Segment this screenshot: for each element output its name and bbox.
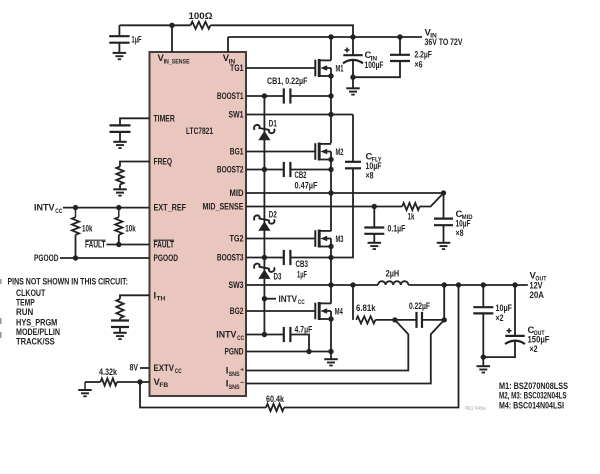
transistor M3 bbox=[314, 230, 316, 247]
svg-text:60.4k: 60.4k bbox=[266, 394, 285, 405]
node CB2 right junction bbox=[328, 167, 333, 172]
diode D3 bbox=[263, 260, 265, 271]
wire D3 to INTVCC stub bbox=[263, 279, 265, 335]
resistor R 6.81k bbox=[356, 316, 375, 323]
svg-text:BOOST2: BOOST2 bbox=[217, 165, 244, 176]
capacitor C 1uF bbox=[109, 35, 129, 37]
svg-text:×8: ×8 bbox=[366, 171, 374, 182]
wire CMID to ground bbox=[443, 225, 445, 243]
resistor R freq bbox=[116, 167, 123, 185]
ground below freq resistor bbox=[113, 188, 127, 190]
wire CIN bottom to ground bbox=[352, 77, 354, 88]
wire CB2 to SW2 vertical bbox=[290, 169, 331, 171]
resistor R 100ohm bbox=[191, 22, 211, 29]
diode D1 bbox=[263, 121, 265, 132]
svg-text:BG1: BG1 bbox=[230, 147, 244, 158]
wire TG2 to M3 gate bbox=[246, 238, 315, 240]
svg-text:EXT_REF: EXT_REF bbox=[154, 203, 187, 214]
wire BOOST1 row bbox=[246, 95, 284, 97]
svg-text:PINS NOT SHOWN IN THIS CIRCUIT: PINS NOT SHOWN IN THIS CIRCUIT: bbox=[8, 276, 128, 287]
wire PGND row bbox=[246, 351, 331, 353]
wire inductor to VOUT rail bbox=[408, 284, 527, 286]
svg-text:0.22µF: 0.22µF bbox=[409, 301, 430, 312]
svg-text:INTV: INTV bbox=[216, 330, 237, 341]
wire VIN rail to 2.2uF bbox=[399, 37, 401, 55]
svg-text:M1: M1 bbox=[336, 63, 344, 74]
capacitor C 4.7uF bbox=[283, 327, 285, 342]
wire MID_SENSE to 0.1uF bbox=[373, 207, 375, 228]
svg-text:M4: BSC014N04LSI: M4: BSC014N04LSI bbox=[499, 400, 564, 411]
capacitor COUT 150uF electrolytic bbox=[505, 335, 524, 337]
wire M2 source to M3 drain bbox=[330, 160, 332, 232]
wire SW3 row bbox=[246, 284, 378, 286]
ground below 1uF bbox=[113, 52, 127, 54]
node SW3 junction M3 M4 bbox=[328, 282, 333, 287]
svg-text:PGND: PGND bbox=[225, 347, 244, 358]
svg-text:100µF: 100µF bbox=[365, 60, 384, 71]
svg-text:0.1µF: 0.1µF bbox=[388, 224, 406, 235]
svg-text:6.81k: 6.81k bbox=[356, 303, 376, 314]
svg-text:TH: TH bbox=[157, 295, 166, 302]
svg-text:M2: M2 bbox=[336, 147, 344, 158]
wire BOOST1 to D1 bbox=[263, 96, 265, 122]
ground below ith cap bbox=[113, 332, 127, 334]
ground below output caps bbox=[477, 365, 491, 367]
svg-text:+: + bbox=[240, 367, 244, 374]
wire M4 source to PGND bbox=[330, 319, 332, 352]
wire COUT bottom bbox=[483, 340, 515, 357]
node BOOST3 junction bbox=[262, 255, 267, 260]
resistor R 60.4k bbox=[266, 404, 284, 411]
node VIN_SENSE junction on top wire bbox=[169, 23, 174, 28]
wire 6.81k to 0.22uF bbox=[375, 319, 416, 321]
svg-text:MID: MID bbox=[230, 188, 244, 199]
svg-text:1µF: 1µF bbox=[297, 269, 307, 280]
node PGND junction M4 source bbox=[328, 349, 333, 354]
svg-text:CB2: CB2 bbox=[295, 170, 307, 181]
svg-text:D1: D1 bbox=[269, 118, 277, 129]
wire 1k to MID diagonal bbox=[420, 193, 444, 207]
node VOUT COUT junction bbox=[512, 282, 517, 287]
IC U1 LTC7821 body bbox=[150, 52, 247, 396]
wire EXT_REF row bbox=[63, 207, 150, 209]
svg-text:PGOOD: PGOOD bbox=[34, 253, 59, 264]
node CIN bottom junction bbox=[350, 75, 355, 80]
resistor R 10k right bbox=[115, 217, 122, 235]
wire 0.22uF right to node bbox=[422, 319, 444, 321]
svg-text:10k: 10k bbox=[82, 223, 93, 234]
svg-text:D2: D2 bbox=[269, 209, 277, 220]
wire TG1 to M1 gate bbox=[246, 67, 315, 69]
wire INTVCC stub tick bbox=[264, 298, 276, 300]
wire VOUT feedback down bbox=[284, 285, 459, 408]
svg-text:100Ω: 100Ω bbox=[189, 11, 213, 22]
node sense junction right bbox=[442, 317, 447, 322]
node 2.2uF junction bbox=[397, 34, 402, 39]
resistor R 4.32k bbox=[101, 378, 118, 385]
svg-text:×6: ×6 bbox=[415, 59, 423, 70]
wire VFB row bbox=[117, 381, 150, 383]
wire BG2 to M4 gate bbox=[246, 310, 315, 312]
wire M1 source to M2 drain SW1 vertical bbox=[330, 76, 332, 143]
svg-text:MID_SENSE: MID_SENSE bbox=[203, 202, 244, 213]
edge artifact marks bbox=[0, 279, 2, 284]
node PGND junction 4.7uF bbox=[306, 349, 311, 354]
svg-text:CC: CC bbox=[298, 299, 305, 306]
svg-text:FAULT: FAULT bbox=[85, 240, 106, 251]
node FAULT junction bbox=[116, 242, 121, 247]
wire sense right to VOUT rail bbox=[443, 285, 445, 320]
wire CB3 to SW3 vertical bbox=[290, 257, 331, 259]
capacitor C 0.22uF sense bbox=[415, 312, 417, 328]
node CIN junction bbox=[350, 34, 355, 39]
node output ground junction bbox=[481, 354, 486, 359]
capacitor C ith bbox=[111, 319, 129, 321]
wire 10k right to FAULT bbox=[118, 235, 120, 245]
node SW3 junction CFLY sense bbox=[350, 282, 355, 287]
svg-text:36V TO 72V: 36V TO 72V bbox=[425, 37, 463, 48]
wire VIN_SENSE stub bbox=[171, 25, 173, 52]
wire ITH row bbox=[120, 295, 150, 299]
svg-text:TRACK/SS: TRACK/SS bbox=[16, 337, 55, 348]
wire VOUT to COUT bbox=[514, 285, 516, 336]
wire freq resistor to ground bbox=[119, 185, 121, 190]
svg-text:LTC7821: LTC7821 bbox=[186, 126, 213, 137]
svg-text:2µH: 2µH bbox=[386, 269, 400, 280]
wire 2.2uF to CIN bottom bbox=[353, 61, 400, 77]
svg-text:×2: ×2 bbox=[496, 313, 504, 324]
ground below 0.1uF bbox=[368, 242, 382, 244]
node VOUT rail junction inductor sense bbox=[442, 282, 447, 287]
resistor R 10k left bbox=[72, 217, 79, 235]
svg-text:TIMER: TIMER bbox=[154, 113, 175, 124]
wire 10k left to PGOOD bbox=[75, 235, 77, 258]
node CB1 right junction bbox=[328, 93, 333, 98]
svg-text:CC: CC bbox=[175, 368, 182, 375]
capacitor C timer bbox=[110, 124, 131, 126]
svg-text:CC: CC bbox=[55, 208, 62, 215]
svg-text:−: − bbox=[240, 380, 244, 387]
ground below CMID bbox=[437, 242, 451, 244]
svg-text:1k: 1k bbox=[408, 211, 415, 222]
svg-text:20A: 20A bbox=[530, 290, 545, 301]
node sense junction left bbox=[392, 317, 397, 322]
wire CFLY bottom to SW3 net bbox=[331, 168, 353, 257]
svg-text:SW3: SW3 bbox=[229, 280, 244, 291]
wire SW1 to CFLY top bbox=[352, 115, 354, 162]
wire CB1 to SW1 vertical bbox=[290, 95, 331, 97]
wire BOOST3 to D3 bbox=[263, 258, 265, 261]
svg-text:10k: 10k bbox=[125, 223, 136, 234]
node INTVCC stub junction bbox=[262, 296, 267, 301]
svg-text:TG1: TG1 bbox=[230, 63, 244, 74]
wire SW1 row bbox=[246, 114, 353, 116]
svg-text:PGOOD: PGOOD bbox=[154, 253, 179, 264]
svg-text:IN_SENSE: IN_SENSE bbox=[164, 58, 190, 65]
svg-text:BOOST1: BOOST1 bbox=[217, 91, 244, 102]
svg-text:D3: D3 bbox=[274, 271, 282, 282]
svg-text:SW1: SW1 bbox=[229, 110, 245, 121]
node EXT_REF junction right 10k bbox=[116, 205, 121, 210]
wire FAULT row bbox=[107, 244, 150, 246]
wire 4.7uF to PGND bbox=[290, 335, 309, 352]
wire 1uF to 100ohm resistor bbox=[119, 24, 190, 26]
wire PGND to ground bbox=[330, 352, 332, 360]
transistor M4 bbox=[314, 303, 316, 320]
svg-text:M3: M3 bbox=[336, 234, 344, 245]
svg-text:SNS: SNS bbox=[229, 371, 240, 378]
svg-text:INTV: INTV bbox=[34, 203, 55, 214]
wire ISNS+ tap bbox=[246, 320, 408, 371]
node PGOOD junction bbox=[73, 255, 78, 260]
ground below CIN bbox=[346, 87, 360, 89]
svg-text:BG2: BG2 bbox=[230, 306, 244, 317]
wire BOOST3 row bbox=[246, 257, 284, 259]
capacitor CIN 100uF electrolytic bbox=[343, 54, 362, 56]
wire VOUT to 10uF bbox=[482, 285, 484, 307]
svg-text:FB: FB bbox=[159, 382, 168, 389]
diode D2 bbox=[263, 212, 265, 223]
wire timer cap to ground bbox=[119, 132, 121, 142]
capacitor C 10uF x2 bbox=[473, 306, 493, 308]
wire D2 to BOOST3 bbox=[263, 230, 265, 257]
node MID right junction bbox=[441, 190, 446, 195]
capacitor CB1 0.22uF bbox=[283, 88, 285, 103]
svg-text:0.47µF: 0.47µF bbox=[295, 181, 318, 192]
wire M1 drain to VIN rail bbox=[330, 37, 332, 60]
svg-text:BOOST3: BOOST3 bbox=[217, 253, 244, 264]
wire BG1 to M2 gate bbox=[246, 151, 315, 153]
wire 0.1uF to ground bbox=[373, 234, 375, 243]
wire CIN to ground node bbox=[352, 60, 354, 78]
node M1 drain junction bbox=[328, 34, 333, 39]
node INTVCC junction bbox=[262, 332, 267, 337]
svg-text:×8: ×8 bbox=[456, 228, 464, 239]
wire FREQ row bbox=[120, 162, 150, 167]
svg-text:8V: 8V bbox=[130, 362, 139, 373]
svg-text:×2: ×2 bbox=[530, 344, 538, 355]
node EXT_REF junction left 10k bbox=[73, 205, 78, 210]
wire M3 source to M4 drain bbox=[330, 247, 332, 304]
svg-text:FREQ: FREQ bbox=[154, 157, 173, 168]
wire 4.32k to ground bbox=[85, 381, 101, 383]
svg-text:SNS: SNS bbox=[229, 384, 240, 391]
wire VIN rail to CIN bbox=[352, 37, 354, 55]
capacitor C 1uF lead bbox=[118, 25, 120, 36]
wire BOOST2 row bbox=[246, 169, 284, 171]
wire 60.4k to VFB bbox=[140, 382, 266, 408]
svg-text:1µF: 1µF bbox=[132, 34, 142, 45]
node SW1 junction bbox=[328, 112, 333, 117]
capacitor CMID 10uF x8 bbox=[434, 218, 453, 220]
wire MID to CMID bbox=[443, 193, 445, 219]
wire INTVCC row bbox=[246, 334, 284, 336]
wire TIMER row bbox=[120, 118, 150, 125]
capacitor CB3 1uF bbox=[283, 250, 285, 265]
node VOUT feedback junction bbox=[456, 282, 461, 287]
capacitor 2.2uF x6 bbox=[390, 54, 410, 56]
wire 10uF to ground node bbox=[482, 313, 484, 357]
wire BOOST2 to D2 bbox=[263, 170, 265, 213]
capacitor C 0.1uF bbox=[364, 226, 384, 228]
wire PGOOD row bbox=[60, 257, 150, 259]
inductor L 2uH bbox=[378, 281, 408, 285]
wire 1uF to ground bbox=[118, 43, 120, 53]
node VFB junction bbox=[137, 379, 142, 384]
wire ith resistor to cap bbox=[119, 318, 121, 321]
wire D1 to BOOST2 bbox=[263, 140, 265, 170]
wire VIN pin stub bbox=[227, 37, 229, 52]
ground below PGND bbox=[324, 358, 338, 360]
svg-text:FAULT: FAULT bbox=[154, 240, 175, 251]
resistor R ith bbox=[116, 299, 123, 318]
svg-text:TG2: TG2 bbox=[230, 234, 244, 245]
ground below timer cap bbox=[113, 141, 127, 143]
node BOOST2 junction bbox=[262, 167, 267, 172]
wire EXTVCC stub 8V bbox=[140, 367, 150, 369]
node VOUT 10uF junction bbox=[481, 282, 486, 287]
ground left of 4.32k bbox=[78, 389, 92, 391]
capacitor CFLY 10uF x8 bbox=[345, 161, 361, 163]
wire MID row bbox=[246, 192, 444, 194]
node CB3 right junction bbox=[328, 255, 333, 260]
node BOOST1 junction bbox=[262, 93, 267, 98]
node MID_SENSE junction 0.1uF bbox=[372, 204, 377, 209]
svg-text:CC: CC bbox=[237, 335, 244, 342]
wire to output ground bbox=[482, 357, 484, 366]
resistor R 1k bbox=[402, 203, 419, 210]
wire MID_SENSE row bbox=[246, 206, 402, 208]
wire ISNS- tap bbox=[246, 320, 444, 384]
svg-text:4.7µF: 4.7µF bbox=[295, 325, 313, 336]
node MID junction at M2 M3 bbox=[328, 190, 333, 195]
capacitor CB2 0.47uF bbox=[283, 162, 285, 177]
wire VIN rail bbox=[228, 36, 422, 38]
svg-text:M4: M4 bbox=[335, 306, 343, 317]
svg-text:CB1, 0.22µF: CB1, 0.22µF bbox=[267, 76, 308, 87]
svg-text:7821 TA01a: 7821 TA01a bbox=[465, 405, 486, 410]
wire ith cap to ground bbox=[119, 327, 121, 333]
svg-text:4.32k: 4.32k bbox=[99, 367, 118, 378]
transistor M2 bbox=[314, 143, 316, 160]
svg-text:EXTV: EXTV bbox=[154, 363, 175, 374]
wire 100ohm to VIN rail bbox=[210, 25, 353, 37]
transistor M1 bbox=[314, 60, 316, 77]
wire SW3 to 6.81k bbox=[352, 285, 354, 320]
svg-text:INTV: INTV bbox=[279, 294, 298, 305]
